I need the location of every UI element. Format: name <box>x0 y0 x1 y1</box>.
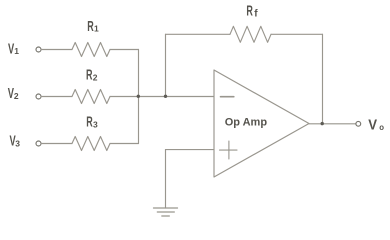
wire non-inverting input <box>166 149 215 151</box>
resistor R2 <box>72 90 110 104</box>
svg-text:3: 3 <box>15 139 20 149</box>
op-amp U1 triangle <box>214 70 309 177</box>
ground <box>154 207 178 209</box>
op-amp non-inverting input plus sign <box>220 149 238 151</box>
wire V2 terminal to R2 <box>41 96 72 98</box>
svg-text:o: o <box>379 123 384 132</box>
resistor R3 <box>72 137 110 151</box>
svg-text:R: R <box>246 2 253 19</box>
svg-text:V: V <box>368 116 377 133</box>
wire V1 terminal to R1 <box>41 49 72 51</box>
wire V3 terminal to R3 <box>41 143 72 145</box>
output terminal Vo <box>356 121 361 126</box>
input terminal V2 <box>36 94 41 99</box>
junction node feedback tap <box>164 95 167 98</box>
wire feedback tap up from summing node <box>165 34 167 96</box>
svg-text:1: 1 <box>14 46 19 56</box>
resistor Rf <box>230 26 271 42</box>
op-amp inverting input minus sign <box>221 96 234 98</box>
wire feedback top left to Rf <box>166 33 231 35</box>
svg-text:Op Amp: Op Amp <box>225 116 268 128</box>
svg-text:2: 2 <box>14 91 19 101</box>
svg-text:R: R <box>86 113 93 130</box>
wire R1 to elbow <box>110 49 139 51</box>
junction node summing input <box>137 95 140 98</box>
wire non-inverting input down to ground <box>165 150 167 208</box>
input terminal V3 <box>36 141 41 146</box>
wire feedback down to output node <box>322 34 324 124</box>
wire op-amp output to terminal <box>309 123 356 125</box>
wire summing node row to op-amp inverting input <box>110 96 214 98</box>
svg-text:f: f <box>254 9 258 20</box>
junction node output <box>321 122 324 125</box>
wire R3 to elbow <box>110 143 139 145</box>
wire Rf to right elbow <box>271 33 323 35</box>
resistor R1 <box>72 43 110 57</box>
wire R3 branch up to summing node <box>138 97 140 144</box>
input terminal V1 <box>36 47 41 52</box>
svg-text:1: 1 <box>94 24 99 34</box>
svg-text:3: 3 <box>93 120 98 130</box>
wire R1 branch down to summing node <box>138 50 140 97</box>
svg-text:2: 2 <box>93 73 98 83</box>
svg-text:R: R <box>86 66 93 83</box>
svg-text:R: R <box>87 17 94 34</box>
